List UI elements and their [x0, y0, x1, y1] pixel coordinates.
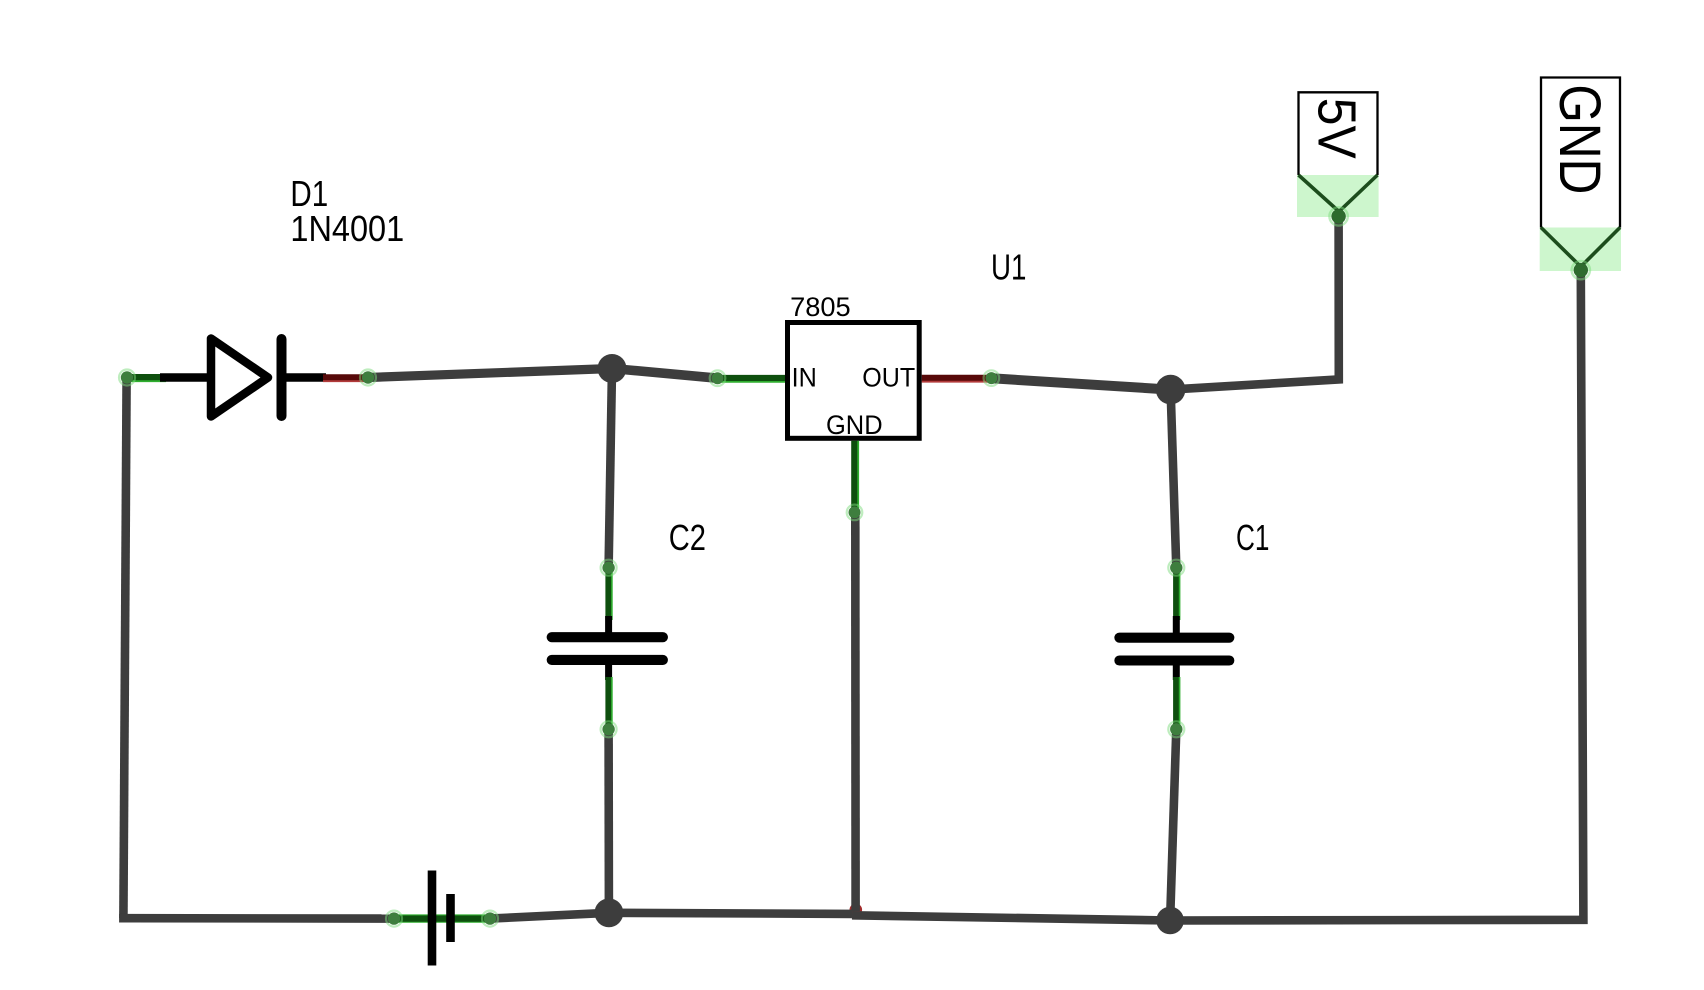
pin battery left	[388, 912, 400, 924]
svg-text:7805: 7805	[790, 292, 851, 322]
diode D1 cathode red lead	[323, 374, 364, 381]
capacitor C1 top green lead	[1173, 570, 1179, 620]
capacitor C2 bottom black lead	[605, 664, 612, 680]
net flag 5V chevron	[1299, 175, 1378, 212]
battery BT1 long plate	[428, 871, 437, 966]
wire OUT pin to top-right junction	[991, 378, 1170, 389]
junction dot bottom-right (node GND rail)	[1156, 907, 1184, 935]
wire diode cathode to top-left junction	[368, 369, 612, 378]
svg-text:GND: GND	[826, 410, 883, 440]
capacitor C2 top black lead	[605, 616, 612, 633]
battery BT1 short plate	[446, 894, 455, 942]
diode D1 cathode black lead	[284, 373, 326, 382]
svg-text:OUT: OUT	[862, 363, 915, 393]
wire 5V riser and top segment to top-right junction	[1171, 216, 1339, 389]
net flag 5V highlight	[1297, 175, 1379, 217]
net flag GND highlight	[1540, 228, 1621, 272]
wire C1 bottom pin down to bottom-right junction	[1170, 729, 1176, 920]
net flag GND chevron	[1541, 228, 1620, 267]
diode D1 cathode bar	[277, 339, 287, 416]
pin C1 bottom	[1170, 723, 1182, 735]
wire bottom rail (U1 GND drop to bottom-right junction)	[852, 915, 1170, 920]
pin U1 IN	[712, 372, 724, 384]
capacitor C2 top green lead	[605, 570, 611, 620]
capacitor C2 bottom plate	[552, 655, 663, 665]
capacitor C1 top plate	[1119, 633, 1229, 643]
wire U1 GND pin down to bottom rail	[851, 512, 860, 911]
capacitor C1 bottom green lead	[1173, 677, 1179, 727]
pin net GND	[1574, 263, 1588, 277]
wire bottom rail (junction to U1 GND drop)	[609, 913, 852, 914]
capacitor C1 top black lead	[1173, 616, 1180, 633]
capacitor C1 bottom plate	[1119, 655, 1229, 665]
pin C2 top	[602, 562, 614, 574]
pin C2 bottom	[602, 723, 614, 735]
wire top-right junction down to C1 top pin	[1171, 390, 1177, 568]
junction dot bottom-left (node GND rail)	[595, 898, 624, 927]
svg-text:5V: 5V	[1307, 98, 1366, 159]
net flag 5V box	[1299, 92, 1378, 175]
diode D1 anode black lead	[160, 373, 211, 382]
wire bottom-left rail (corner to battery left pin)	[119, 914, 394, 923]
capacitor C2 bottom green lead	[605, 677, 611, 727]
wire top-left junction to IN pin	[612, 369, 718, 379]
regulator U1 GND green pin lead	[851, 441, 858, 513]
svg-text:IN: IN	[792, 363, 817, 393]
svg-text:GND: GND	[1547, 84, 1612, 194]
diode D1 triangle	[211, 339, 268, 417]
svg-text:C2: C2	[669, 517, 706, 558]
wire battery right pin to bottom-left junction	[490, 913, 609, 919]
pin diode D1 cathode	[362, 371, 374, 383]
pin C1 top	[1170, 562, 1182, 574]
regulator U1 IN green pin lead	[718, 375, 790, 382]
junction dot top-left (node IN)	[598, 354, 627, 383]
pin net 5V	[1331, 209, 1345, 223]
capacitor C1 bottom black lead	[1173, 665, 1180, 681]
wire top-left junction down to C2 top pin	[609, 369, 612, 568]
node red pin at bottom rail under U1 GND drop	[850, 904, 863, 917]
pin U1 OUT	[985, 372, 997, 384]
wire bottom rail right + GND riser	[1170, 270, 1583, 920]
diode D1 anode green lead	[127, 374, 166, 381]
wire left vertical (diode anode to bottom rail)	[123, 378, 126, 919]
battery BT1 green lead	[394, 914, 490, 922]
pin U1 GND	[849, 506, 861, 518]
svg-text:U1: U1	[991, 247, 1026, 288]
pin diode D1 anode	[121, 371, 133, 383]
capacitor C2 top plate	[552, 632, 663, 642]
regulator U1 box	[788, 323, 920, 439]
net flag GND box	[1541, 78, 1620, 228]
svg-text:C1: C1	[1236, 517, 1269, 558]
wire C2 bottom pin down to bottom-left junction	[604, 729, 613, 913]
junction dot top-right (node 5V)	[1156, 375, 1186, 405]
svg-text:1N4001: 1N4001	[290, 208, 404, 249]
pin battery right	[484, 912, 496, 924]
regulator U1 OUT red pin lead	[922, 375, 989, 382]
